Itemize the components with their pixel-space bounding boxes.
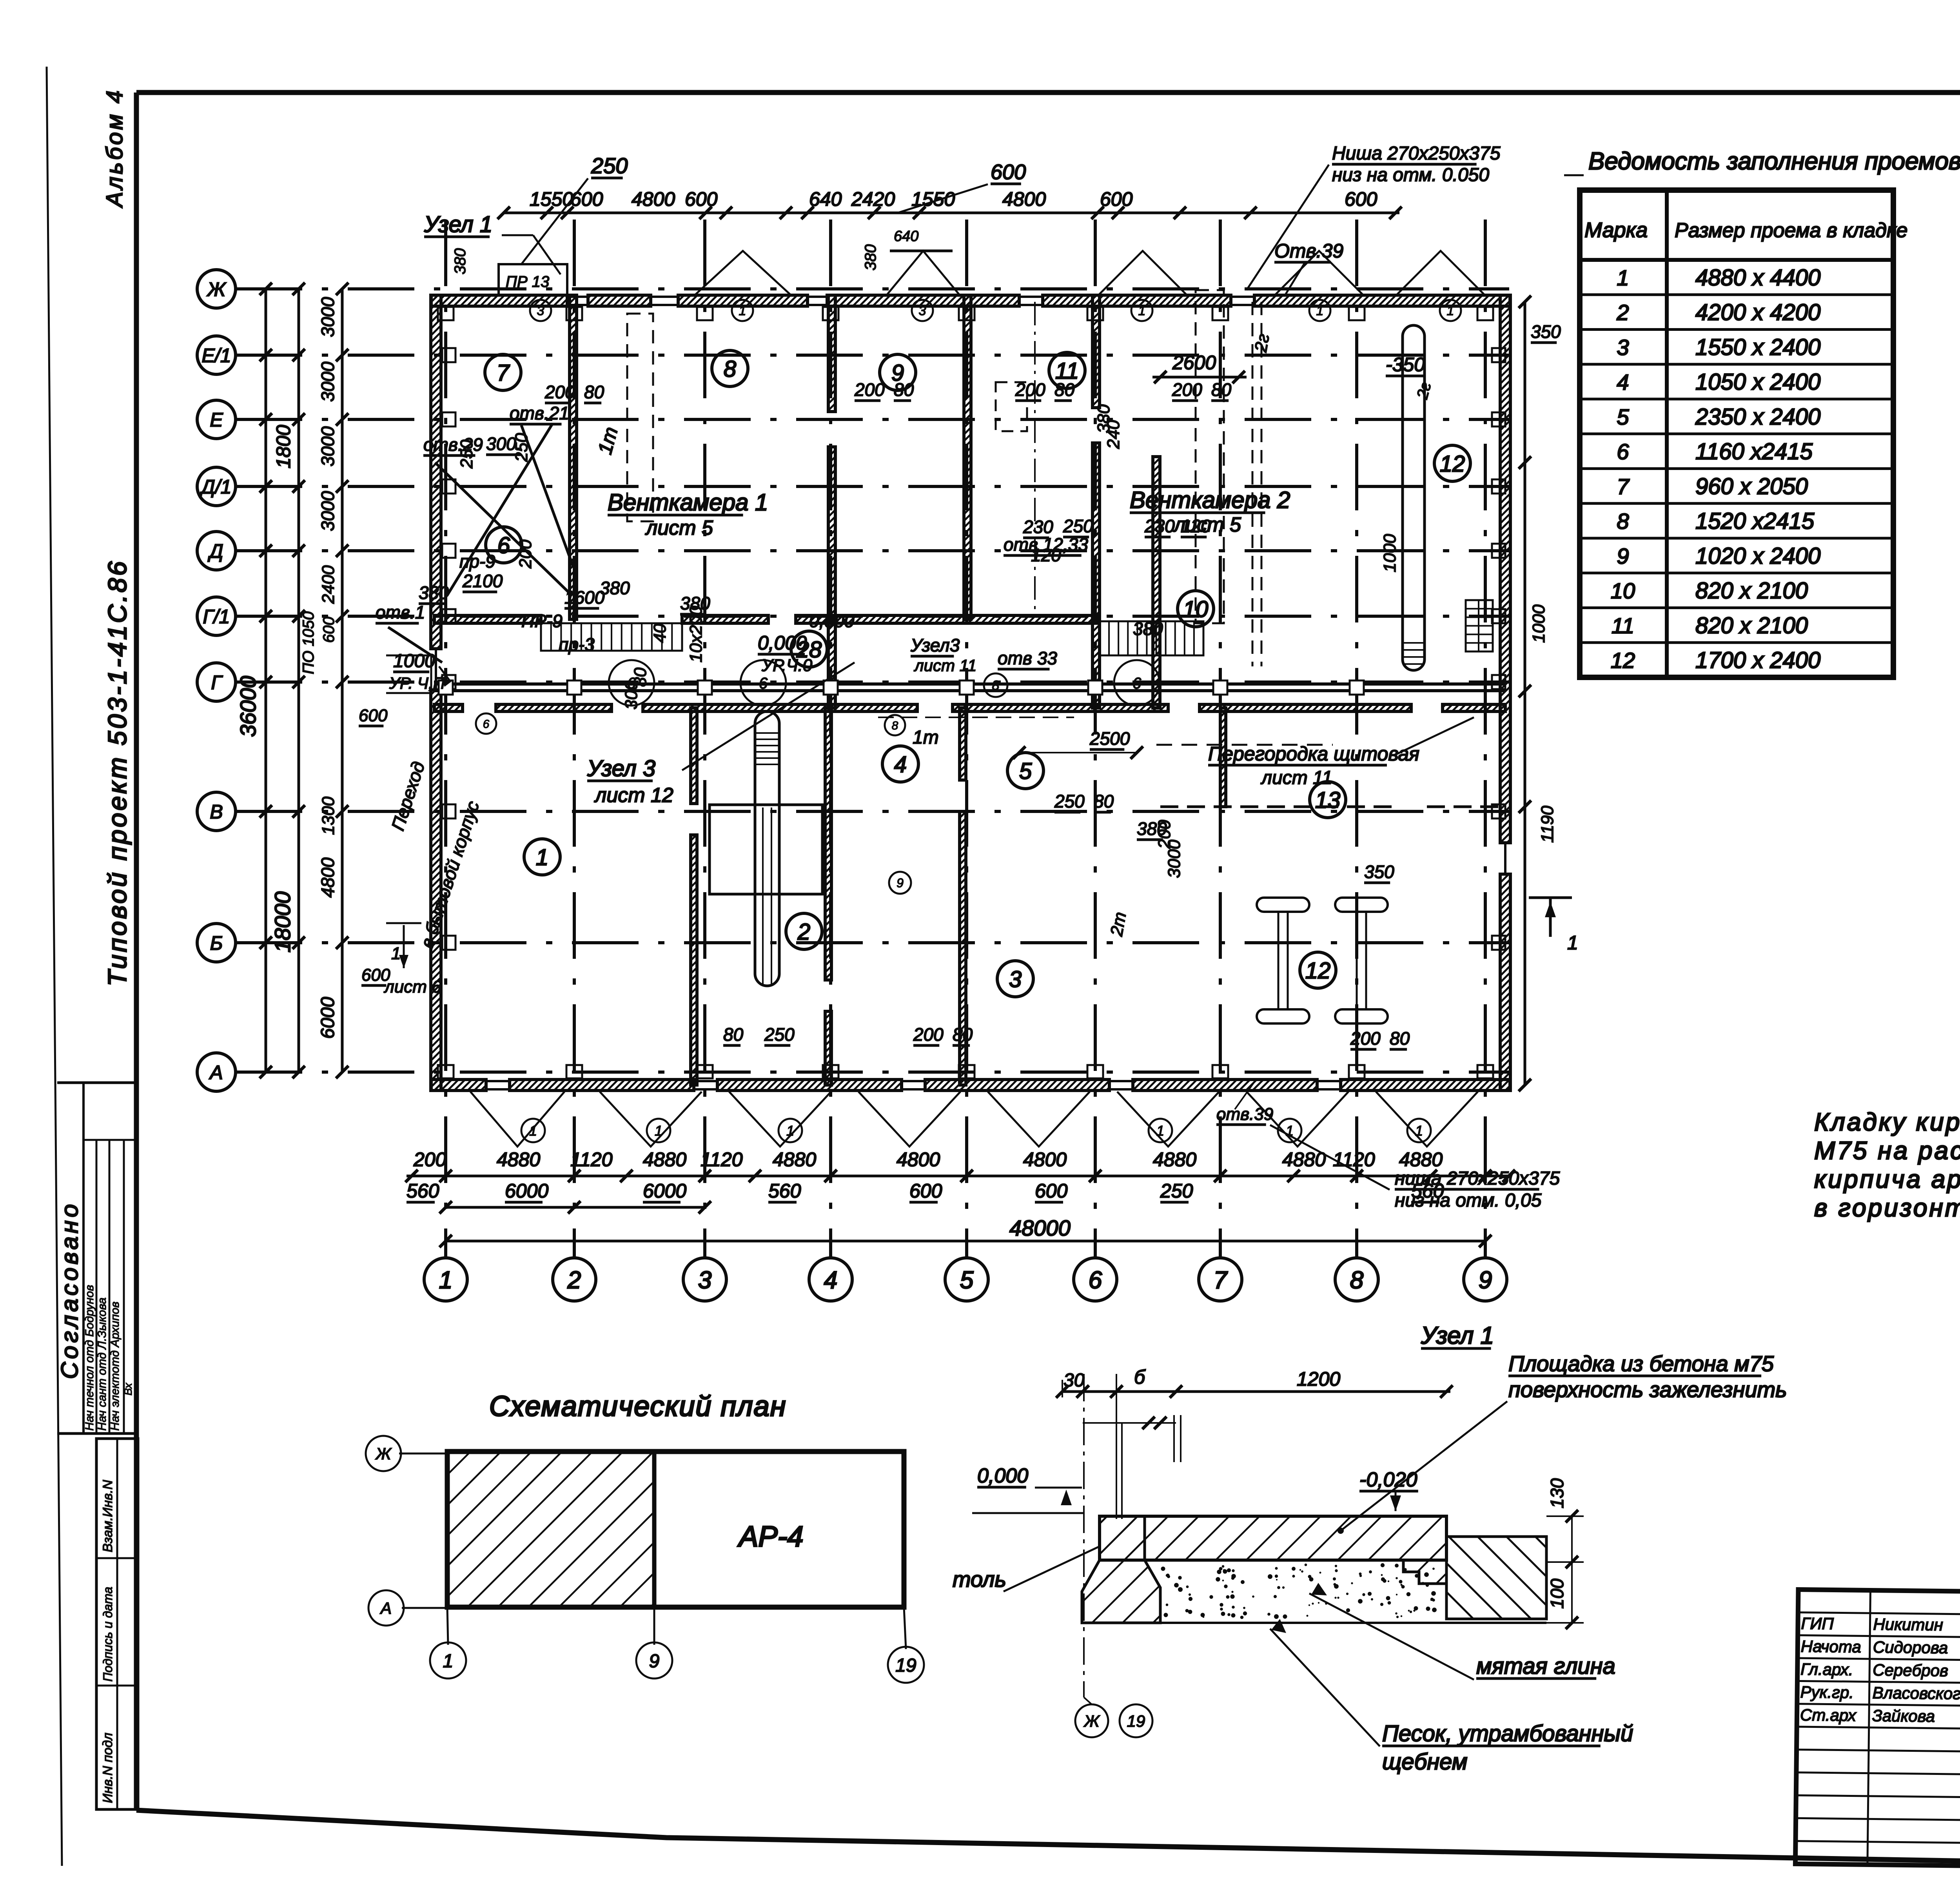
svg-text:380: 380 bbox=[600, 578, 630, 598]
svg-text:Размер проема в кладке: Размер проема в кладке bbox=[1675, 219, 1907, 242]
svg-text:Ж: Ж bbox=[206, 278, 227, 300]
svg-text:1: 1 bbox=[1316, 303, 1324, 318]
svg-text:Б: Б bbox=[210, 932, 223, 954]
svg-text:40: 40 bbox=[650, 624, 670, 643]
svg-text:13: 13 bbox=[1315, 788, 1341, 813]
svg-text:Площадка из бетона м75: Площадка из бетона м75 bbox=[1508, 1351, 1774, 1376]
svg-text:Зайкова: Зайкова bbox=[1872, 1706, 1935, 1726]
svg-text:1120: 1120 bbox=[701, 1149, 743, 1170]
svg-text:Д/1: Д/1 bbox=[200, 476, 232, 498]
svg-text:лист 11: лист 11 bbox=[913, 656, 976, 675]
svg-text:в бытовой корпус: в бытовой корпус bbox=[416, 798, 483, 951]
svg-text:380: 380 bbox=[452, 248, 469, 274]
svg-text:Альбом 4: Альбом 4 bbox=[102, 88, 127, 208]
svg-text:низ на отм. 0.050: низ на отм. 0.050 bbox=[1332, 165, 1489, 185]
svg-text:7: 7 bbox=[497, 360, 510, 386]
svg-text:12: 12 bbox=[1305, 958, 1331, 983]
svg-text:Ст.арх: Ст.арх bbox=[1800, 1706, 1857, 1725]
svg-text:1700 х 2400: 1700 х 2400 bbox=[1695, 648, 1820, 673]
svg-text:250: 250 bbox=[1160, 1180, 1193, 1202]
svg-text:Узел 1: Узел 1 bbox=[1421, 1322, 1494, 1349]
svg-text:230: 230 bbox=[1023, 517, 1053, 537]
svg-text:2600: 2600 bbox=[1172, 352, 1216, 374]
svg-text:Д: Д bbox=[207, 540, 223, 562]
svg-text:ПР-9: ПР-9 bbox=[521, 611, 563, 631]
svg-text:200: 200 bbox=[913, 1024, 944, 1045]
svg-text:600: 600 bbox=[359, 706, 388, 725]
svg-text:2100: 2100 bbox=[462, 571, 503, 591]
svg-text:Согласовано: Согласовано bbox=[56, 1201, 83, 1379]
svg-text:3000: 3000 bbox=[318, 297, 338, 337]
svg-text:48000: 48000 bbox=[1009, 1216, 1071, 1240]
svg-text:4880: 4880 bbox=[497, 1149, 540, 1170]
svg-text:2г: 2г bbox=[1414, 380, 1435, 401]
svg-text:19: 19 bbox=[1127, 1712, 1145, 1730]
svg-text:2г: 2г bbox=[1251, 332, 1273, 354]
svg-text:200: 200 bbox=[1350, 1028, 1381, 1049]
svg-text:4880: 4880 bbox=[643, 1149, 686, 1170]
svg-text:600: 600 bbox=[909, 1180, 942, 1202]
svg-text:АР-4: АР-4 bbox=[737, 1520, 804, 1553]
svg-text:б: б bbox=[1134, 1366, 1146, 1388]
svg-text:4800: 4800 bbox=[1023, 1149, 1067, 1170]
svg-text:560: 560 bbox=[407, 1180, 439, 1202]
svg-text:Узел3: Узел3 bbox=[910, 635, 960, 655]
svg-text:820 х 2100: 820 х 2100 bbox=[1695, 613, 1808, 638]
svg-text:5: 5 bbox=[1019, 758, 1032, 784]
svg-text:640: 640 bbox=[894, 228, 918, 245]
svg-text:1: 1 bbox=[536, 845, 548, 870]
svg-text:380: 380 bbox=[1133, 619, 1163, 639]
svg-text:Типовой проект 503-1-41С.86: Типовой проект 503-1-41С.86 bbox=[103, 559, 132, 986]
svg-text:600: 600 bbox=[1100, 188, 1133, 210]
svg-text:1190: 1190 bbox=[1538, 806, 1557, 843]
svg-text:1120: 1120 bbox=[570, 1149, 613, 1170]
svg-text:отв.1: отв.1 bbox=[376, 602, 425, 622]
svg-text:8: 8 bbox=[992, 678, 1000, 693]
svg-text:Венткамера 2: Венткамера 2 bbox=[1130, 487, 1290, 513]
svg-text:Ниша 270х250х375: Ниша 270х250х375 bbox=[1332, 143, 1501, 164]
svg-text:19: 19 bbox=[895, 1655, 916, 1676]
svg-text:3000: 3000 bbox=[318, 361, 338, 402]
svg-text:А: А bbox=[209, 1062, 223, 1083]
svg-text:9: 9 bbox=[897, 876, 904, 890]
svg-text:2: 2 bbox=[1616, 300, 1629, 325]
svg-text:80: 80 bbox=[631, 668, 650, 687]
svg-text:Кладку кирпичных стен и пе: Кладку кирпичных стен и перегородок вест… bbox=[1814, 1108, 1960, 1136]
svg-text:380: 380 bbox=[419, 582, 449, 603]
svg-text:1000: 1000 bbox=[1529, 604, 1548, 643]
svg-text:36000: 36000 bbox=[236, 676, 260, 737]
svg-text:7: 7 bbox=[1214, 1267, 1228, 1294]
svg-text:2420: 2420 bbox=[851, 188, 895, 210]
svg-text:1520 х2415: 1520 х2415 bbox=[1695, 508, 1815, 534]
svg-text:лист 11: лист 11 bbox=[1260, 768, 1332, 788]
svg-text:Перегородка щитовая: Перегородка щитовая bbox=[1208, 743, 1419, 765]
svg-text:4200 х 4200: 4200 х 4200 bbox=[1695, 300, 1820, 325]
svg-text:3000: 3000 bbox=[318, 426, 338, 466]
svg-text:120: 120 bbox=[1181, 516, 1211, 536]
svg-text:8: 8 bbox=[724, 356, 736, 382]
svg-text:А: А bbox=[379, 1599, 392, 1617]
svg-text:8: 8 bbox=[892, 719, 898, 732]
svg-text:УР.Ч.0: УР.Ч.0 bbox=[761, 656, 813, 675]
svg-text:380: 380 bbox=[1094, 404, 1113, 433]
svg-text:380: 380 bbox=[862, 244, 879, 270]
svg-text:9: 9 bbox=[1479, 1267, 1492, 1294]
svg-text:2т: 2т bbox=[1107, 911, 1130, 938]
svg-text:600: 600 bbox=[570, 188, 603, 210]
svg-text:Узел 1: Узел 1 bbox=[424, 212, 492, 237]
svg-text:6: 6 bbox=[1617, 439, 1629, 464]
svg-text:2: 2 bbox=[797, 919, 810, 945]
svg-text:Отв.39: Отв.39 bbox=[1274, 240, 1343, 262]
svg-text:4880: 4880 bbox=[1153, 1149, 1196, 1170]
svg-text:ГИП: ГИП bbox=[1801, 1614, 1834, 1633]
svg-text:250: 250 bbox=[591, 153, 628, 178]
svg-text:Переход: Переход bbox=[387, 759, 429, 833]
svg-text:низ на отм. 0,05: низ на отм. 0,05 bbox=[1395, 1190, 1542, 1211]
svg-text:Вх: Вх bbox=[122, 1383, 134, 1395]
svg-text:Е: Е bbox=[210, 409, 223, 431]
svg-text:350: 350 bbox=[1364, 862, 1394, 882]
svg-text:4880: 4880 bbox=[1399, 1149, 1443, 1170]
svg-text:Сидорова: Сидорова bbox=[1873, 1638, 1948, 1657]
svg-text:3: 3 bbox=[1617, 335, 1629, 359]
svg-text:1600: 1600 bbox=[564, 587, 605, 608]
svg-text:Схематический план: Схематический план bbox=[489, 1391, 786, 1422]
svg-text:Нач течнол отд Бодрунов: Нач течнол отд Бодрунов bbox=[83, 1285, 96, 1431]
svg-text:Начота: Начота bbox=[1801, 1637, 1861, 1656]
svg-text:80: 80 bbox=[1390, 1028, 1410, 1049]
svg-text:6: 6 bbox=[759, 675, 768, 692]
svg-text:80: 80 bbox=[1211, 379, 1232, 400]
svg-text:Серебров: Серебров bbox=[1873, 1660, 1948, 1680]
svg-text:250: 250 bbox=[764, 1024, 795, 1045]
svg-text:Никитин: Никитин bbox=[1873, 1615, 1943, 1634]
svg-text:3: 3 bbox=[919, 303, 926, 318]
svg-text:Взам.Инв.N: Взам.Инв.N bbox=[100, 1480, 115, 1552]
svg-text:1: 1 bbox=[1567, 932, 1578, 954]
svg-text:толь: толь bbox=[953, 1567, 1006, 1591]
svg-text:3: 3 bbox=[698, 1267, 711, 1294]
svg-text:4800: 4800 bbox=[318, 857, 338, 898]
svg-text:В: В bbox=[210, 801, 223, 823]
svg-text:12: 12 bbox=[1440, 451, 1465, 477]
svg-text:1т: 1т bbox=[594, 425, 622, 457]
svg-text:1050 х 2400: 1050 х 2400 bbox=[1695, 369, 1820, 395]
svg-text:80: 80 bbox=[584, 382, 604, 402]
svg-text:600: 600 bbox=[991, 160, 1026, 184]
svg-text:Г/1: Г/1 bbox=[203, 606, 230, 628]
svg-text:1300: 1300 bbox=[319, 797, 338, 835]
svg-text:1: 1 bbox=[439, 1267, 452, 1294]
svg-text:1: 1 bbox=[739, 303, 746, 318]
svg-text:30: 30 bbox=[1063, 1370, 1085, 1391]
svg-text:М75 на растворе М50. Стены: М75 на растворе М50. Стены и перегородки… bbox=[1814, 1136, 1960, 1165]
svg-text:Рук.гр.: Рук.гр. bbox=[1800, 1683, 1854, 1702]
svg-text:0,000: 0,000 bbox=[758, 632, 807, 654]
svg-text:Е/1: Е/1 bbox=[201, 345, 231, 367]
svg-text:Гл.арх.: Гл.арх. bbox=[1800, 1660, 1853, 1678]
svg-text:200: 200 bbox=[544, 382, 575, 402]
svg-text:250: 250 bbox=[1054, 791, 1085, 811]
svg-text:лист 5: лист 5 bbox=[645, 517, 713, 539]
svg-text:Песок, утрамбованный: Песок, утрамбованный bbox=[1382, 1721, 1633, 1746]
svg-text:1000: 1000 bbox=[1380, 534, 1399, 572]
svg-text:7: 7 bbox=[1617, 474, 1630, 499]
svg-text:Власовског: Власовског bbox=[1872, 1684, 1960, 1703]
svg-text:600: 600 bbox=[685, 188, 718, 210]
svg-text:Подпись и дата: Подпись и дата bbox=[101, 1587, 115, 1682]
svg-text:2350 х 2400: 2350 х 2400 bbox=[1695, 404, 1820, 430]
svg-text:200: 200 bbox=[854, 379, 885, 400]
svg-text:8: 8 bbox=[1617, 509, 1629, 533]
svg-text:100: 100 bbox=[1547, 1579, 1567, 1609]
svg-text:1: 1 bbox=[1447, 303, 1454, 318]
svg-text:Г: Г bbox=[211, 671, 223, 693]
svg-text:Венткамера 1: Венткамера 1 bbox=[608, 489, 768, 515]
svg-text:1200: 1200 bbox=[1297, 1368, 1340, 1390]
svg-text:200: 200 bbox=[413, 1149, 446, 1170]
svg-text:1: 1 bbox=[443, 1651, 454, 1671]
svg-text:11: 11 bbox=[1612, 613, 1634, 638]
svg-text:1550 х 2400: 1550 х 2400 bbox=[1695, 334, 1820, 360]
svg-text:10: 10 bbox=[1183, 597, 1209, 622]
svg-text:6000: 6000 bbox=[505, 1180, 548, 1202]
svg-text:Узел 3: Узел 3 bbox=[587, 756, 655, 781]
svg-text:пр-3: пр-3 bbox=[559, 634, 595, 655]
svg-text:80: 80 bbox=[894, 379, 914, 400]
svg-text:8: 8 bbox=[1350, 1267, 1364, 1294]
svg-text:1: 1 bbox=[391, 944, 401, 963]
svg-text:820 х 2100: 820 х 2100 bbox=[1695, 578, 1808, 604]
svg-text:Инв.N подл: Инв.N подл bbox=[100, 1733, 115, 1803]
svg-text:80: 80 bbox=[1054, 379, 1075, 400]
svg-text:230: 230 bbox=[1144, 516, 1175, 536]
svg-text:80: 80 bbox=[1094, 791, 1114, 811]
svg-text:лист 12: лист 12 bbox=[594, 784, 673, 807]
svg-text:10х200: 10х200 bbox=[686, 606, 706, 662]
svg-text:5: 5 bbox=[1617, 405, 1629, 429]
svg-text:640: 640 bbox=[809, 188, 842, 210]
svg-text:кирпича армировать 2Ф6 А-I: кирпича армировать 2Ф6 А-I через 6 рядов… bbox=[1814, 1165, 1960, 1193]
svg-text:6000: 6000 bbox=[318, 997, 338, 1039]
svg-text:200: 200 bbox=[1172, 379, 1202, 400]
svg-text:отв.21: отв.21 bbox=[510, 403, 569, 423]
svg-text:4: 4 bbox=[824, 1267, 837, 1294]
svg-text:130: 130 bbox=[1547, 1478, 1567, 1508]
svg-text:0,000: 0,000 bbox=[809, 611, 855, 631]
svg-text:Ж: Ж bbox=[375, 1444, 392, 1463]
svg-text:4: 4 bbox=[1617, 370, 1629, 394]
svg-text:960 х 2050: 960 х 2050 bbox=[1695, 474, 1808, 499]
svg-text:отв 33: отв 33 bbox=[998, 648, 1057, 668]
svg-text:12: 12 bbox=[1611, 648, 1635, 673]
svg-text:2: 2 bbox=[567, 1267, 581, 1294]
svg-text:поверхность зажелезнить: поверхность зажелезнить bbox=[1508, 1377, 1787, 1402]
svg-text:3000: 3000 bbox=[318, 491, 338, 531]
svg-text:350: 350 bbox=[1531, 321, 1561, 342]
svg-text:0,000: 0,000 bbox=[977, 1464, 1028, 1487]
svg-text:4800: 4800 bbox=[897, 1149, 940, 1170]
svg-text:Ведомость заполнения проемов: Ведомость заполнения проемов bbox=[1588, 148, 1960, 175]
svg-text:250: 250 bbox=[457, 439, 476, 469]
svg-text:5: 5 bbox=[960, 1267, 974, 1294]
svg-text:Ж: Ж bbox=[1083, 1712, 1100, 1730]
svg-text:1120: 1120 bbox=[1333, 1149, 1375, 1170]
svg-text:1020 х 2400: 1020 х 2400 bbox=[1695, 543, 1820, 569]
svg-text:18000: 18000 bbox=[270, 891, 295, 953]
svg-text:щебнем: щебнем bbox=[1382, 1749, 1468, 1775]
svg-text:ниша 270х250х375: ниша 270х250х375 bbox=[1395, 1168, 1560, 1189]
svg-text:250: 250 bbox=[1063, 516, 1093, 536]
svg-text:600: 600 bbox=[1345, 188, 1377, 210]
svg-text:560: 560 bbox=[768, 1180, 801, 1202]
svg-text:1: 1 bbox=[1138, 303, 1146, 318]
svg-text:9: 9 bbox=[649, 1651, 660, 1671]
svg-text:-350: -350 bbox=[1386, 354, 1425, 376]
svg-text:1: 1 bbox=[1617, 265, 1629, 290]
svg-text:Марка: Марка bbox=[1584, 218, 1648, 242]
svg-text:80: 80 bbox=[723, 1024, 744, 1045]
svg-text:1160 х2415: 1160 х2415 bbox=[1695, 439, 1813, 465]
svg-text:Нач электотд Архипов: Нач электотд Архипов bbox=[109, 1301, 122, 1431]
svg-text:4800: 4800 bbox=[632, 188, 675, 210]
svg-text:120: 120 bbox=[1031, 545, 1061, 565]
svg-text:4: 4 bbox=[894, 752, 907, 777]
svg-text:6: 6 bbox=[1089, 1267, 1102, 1294]
svg-text:1800: 1800 bbox=[272, 425, 294, 468]
svg-text:6: 6 bbox=[483, 718, 490, 731]
svg-text:80: 80 bbox=[953, 1024, 973, 1045]
svg-text:600: 600 bbox=[1035, 1180, 1068, 1202]
svg-text:отв.39: отв.39 bbox=[1216, 1105, 1273, 1124]
svg-text:2400: 2400 bbox=[319, 565, 338, 604]
svg-text:1m: 1m bbox=[913, 727, 939, 748]
svg-text:3000: 3000 bbox=[1165, 840, 1184, 878]
svg-text:УР. Ч,П: УР. Ч,П bbox=[389, 674, 445, 692]
svg-text:600: 600 bbox=[320, 617, 338, 643]
svg-text:Нач сант отд Л.Зыкова: Нач сант отд Л.Зыкова bbox=[96, 1297, 109, 1431]
svg-text:4880 х 4400: 4880 х 4400 bbox=[1695, 265, 1820, 290]
svg-text:ПР 13: ПР 13 bbox=[506, 273, 549, 290]
svg-text:3: 3 bbox=[1009, 967, 1022, 992]
svg-text:6: 6 bbox=[497, 533, 510, 558]
svg-text:3: 3 bbox=[537, 303, 544, 318]
svg-text:6: 6 bbox=[1132, 675, 1142, 692]
svg-text:9: 9 bbox=[1617, 544, 1629, 568]
svg-text:4800: 4800 bbox=[1002, 188, 1046, 210]
svg-text:10: 10 bbox=[1611, 579, 1635, 603]
svg-text:2500: 2500 bbox=[1089, 728, 1130, 749]
svg-text:мятая глина: мятая глина bbox=[1476, 1653, 1615, 1679]
svg-text:ПО 1050: ПО 1050 bbox=[300, 611, 317, 674]
svg-text:-0,020: -0,020 bbox=[1359, 1468, 1417, 1491]
svg-text:4880: 4880 bbox=[773, 1149, 816, 1170]
svg-text:6000: 6000 bbox=[643, 1180, 686, 1202]
svg-text:в горизонтальном направлен: в горизонтальном направлении. bbox=[1814, 1194, 1960, 1222]
svg-text:200: 200 bbox=[1015, 379, 1045, 400]
